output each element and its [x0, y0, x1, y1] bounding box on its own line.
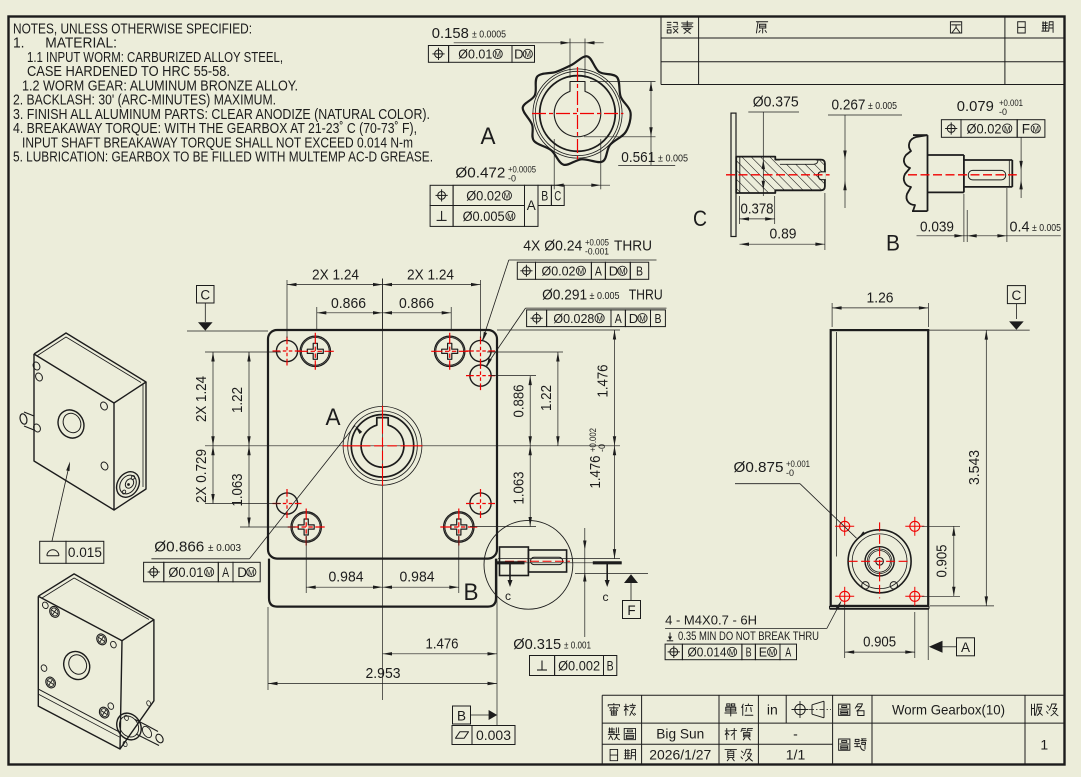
svg-text:A: A	[615, 311, 622, 326]
svg-text:0.886: 0.886	[511, 385, 528, 418]
svg-text:in: in	[767, 701, 778, 717]
svg-text:THRU: THRU	[629, 287, 663, 304]
svg-text:0.89: 0.89	[770, 226, 797, 243]
svg-text:C: C	[693, 206, 707, 231]
svg-text:Ø0.002: Ø0.002	[558, 658, 600, 673]
svg-text:Worm Gearbox(10): Worm Gearbox(10)	[892, 701, 1005, 717]
svg-text:Ø0.315: Ø0.315	[513, 636, 561, 653]
svg-text:0.984: 0.984	[329, 569, 364, 586]
svg-text:2X 0.729: 2X 0.729	[193, 449, 210, 503]
svg-text:A: A	[961, 640, 970, 655]
svg-text:± 0.005: ± 0.005	[590, 290, 620, 302]
svg-text:0.158: 0.158	[432, 25, 469, 42]
svg-text:0.866: 0.866	[399, 295, 434, 312]
svg-text:M: M	[206, 568, 213, 577]
svg-text:1.063: 1.063	[229, 474, 246, 507]
svg-text:-: -	[793, 726, 798, 742]
svg-text:B: B	[886, 231, 900, 256]
svg-text:1: 1	[1040, 737, 1048, 753]
svg-text:-0: -0	[597, 444, 607, 452]
svg-text:0.267: 0.267	[832, 97, 866, 114]
svg-text:-0: -0	[999, 107, 1007, 117]
svg-text:A: A	[222, 565, 229, 580]
svg-text:A: A	[326, 404, 341, 431]
svg-text:M: M	[1004, 125, 1011, 134]
svg-text:2.953: 2.953	[366, 665, 401, 682]
svg-text:0.866: 0.866	[331, 295, 366, 312]
svg-text:1/1: 1/1	[786, 747, 806, 763]
svg-text:A: A	[481, 123, 496, 150]
svg-text:0.378: 0.378	[741, 201, 774, 218]
svg-text:1.476: 1.476	[595, 365, 612, 398]
svg-text:F: F	[1022, 121, 1030, 136]
svg-text:2X 1.24: 2X 1.24	[193, 376, 210, 422]
svg-text:C: C	[1012, 288, 1022, 303]
svg-text:M: M	[504, 192, 511, 201]
svg-text:± 0.001: ± 0.001	[564, 640, 591, 652]
svg-text:M: M	[619, 267, 626, 276]
svg-text:0.984: 0.984	[400, 569, 435, 586]
svg-text:M: M	[494, 50, 501, 59]
svg-text:3.543: 3.543	[966, 450, 983, 485]
svg-text:Ø0.014: Ø0.014	[688, 645, 727, 659]
svg-text:-0: -0	[786, 468, 794, 478]
svg-text:A: A	[785, 645, 791, 659]
svg-text:± 0.003: ± 0.003	[208, 542, 241, 554]
svg-text:D: D	[514, 47, 523, 62]
svg-text:B: B	[607, 658, 614, 673]
svg-text:C: C	[200, 288, 210, 303]
svg-text:Ø0.291: Ø0.291	[542, 287, 587, 304]
svg-text:M: M	[769, 648, 776, 657]
svg-text:Ø0.472: Ø0.472	[455, 165, 505, 182]
svg-text:± 0.005: ± 0.005	[868, 100, 897, 112]
svg-text:M: M	[507, 212, 514, 221]
svg-text:B: B	[636, 263, 643, 278]
svg-text:A: A	[595, 263, 602, 278]
svg-text:2X 1.24: 2X 1.24	[407, 267, 454, 284]
svg-text:B: B	[746, 645, 752, 659]
svg-text:1.22: 1.22	[538, 385, 555, 411]
svg-text:M: M	[578, 267, 585, 276]
svg-text:M: M	[525, 50, 532, 59]
svg-text:D: D	[629, 311, 638, 326]
svg-text:0.905: 0.905	[863, 634, 896, 651]
svg-text:Ø0.375: Ø0.375	[753, 94, 799, 111]
svg-text:Ø0.02: Ø0.02	[466, 188, 501, 203]
svg-text:0.003: 0.003	[476, 728, 511, 743]
svg-text:1.476: 1.476	[587, 456, 604, 489]
svg-text:-0.001: -0.001	[585, 247, 609, 257]
svg-text:0.015: 0.015	[68, 545, 102, 560]
svg-text:Ø0.028: Ø0.028	[553, 311, 594, 326]
svg-text:0.4: 0.4	[1010, 218, 1030, 235]
svg-text:Ø0.875: Ø0.875	[734, 459, 784, 476]
svg-text:C: C	[554, 188, 561, 203]
svg-text:0.561: 0.561	[621, 149, 655, 166]
svg-text:M: M	[596, 315, 603, 324]
svg-text:D: D	[237, 565, 247, 580]
svg-text:A: A	[527, 198, 536, 213]
svg-text:c: c	[505, 589, 511, 603]
svg-text:1.22: 1.22	[229, 387, 246, 413]
svg-text:5. LUBRICATION: GEARBOX TO BE: 5. LUBRICATION: GEARBOX TO BE FILLED WIT…	[13, 149, 433, 166]
svg-text:-0: -0	[508, 174, 516, 184]
svg-text:B: B	[457, 708, 466, 723]
svg-text:Ø0.01: Ø0.01	[458, 47, 492, 62]
svg-text:1.476: 1.476	[426, 636, 459, 653]
svg-text:Ø0.02: Ø0.02	[542, 263, 576, 278]
svg-text:B: B	[655, 311, 662, 326]
svg-text:M: M	[248, 568, 255, 577]
svg-text:Ø0.005: Ø0.005	[463, 209, 505, 224]
svg-text:D: D	[609, 263, 618, 278]
svg-text:THRU: THRU	[614, 238, 652, 255]
svg-text:± 0.0005: ± 0.0005	[472, 29, 506, 41]
svg-text:Ø0.01: Ø0.01	[168, 565, 203, 580]
svg-text:2026/1/27: 2026/1/27	[649, 747, 711, 763]
svg-text:E: E	[759, 645, 767, 659]
svg-text:c: c	[603, 590, 609, 604]
svg-text:Ø0.02: Ø0.02	[967, 121, 1002, 136]
svg-text:2X 1.24: 2X 1.24	[312, 267, 359, 284]
svg-text:1.063: 1.063	[511, 472, 528, 505]
svg-text:± 0.005: ± 0.005	[658, 152, 688, 164]
svg-text:Big Sun: Big Sun	[656, 726, 704, 742]
svg-text:4 - M4X0.7 - 6H: 4 - M4X0.7 - 6H	[665, 614, 757, 628]
svg-text:M: M	[639, 315, 646, 324]
svg-text:± 0.005: ± 0.005	[1032, 222, 1061, 234]
svg-text:Ø0.866: Ø0.866	[154, 539, 204, 556]
svg-text:4X Ø0.24: 4X Ø0.24	[523, 238, 582, 255]
svg-text:0.079: 0.079	[957, 98, 994, 115]
svg-text:B: B	[464, 579, 479, 606]
svg-text:0.039: 0.039	[920, 218, 954, 235]
svg-text:0.905: 0.905	[934, 545, 951, 578]
svg-text:1.26: 1.26	[867, 290, 894, 307]
svg-text:M: M	[729, 648, 736, 657]
svg-text:B: B	[541, 188, 548, 203]
svg-text:F: F	[627, 603, 635, 618]
svg-text:0.35 MIN DO NOT BREAK THRU: 0.35 MIN DO NOT BREAK THRU	[678, 631, 819, 643]
svg-text:M: M	[1032, 125, 1039, 134]
